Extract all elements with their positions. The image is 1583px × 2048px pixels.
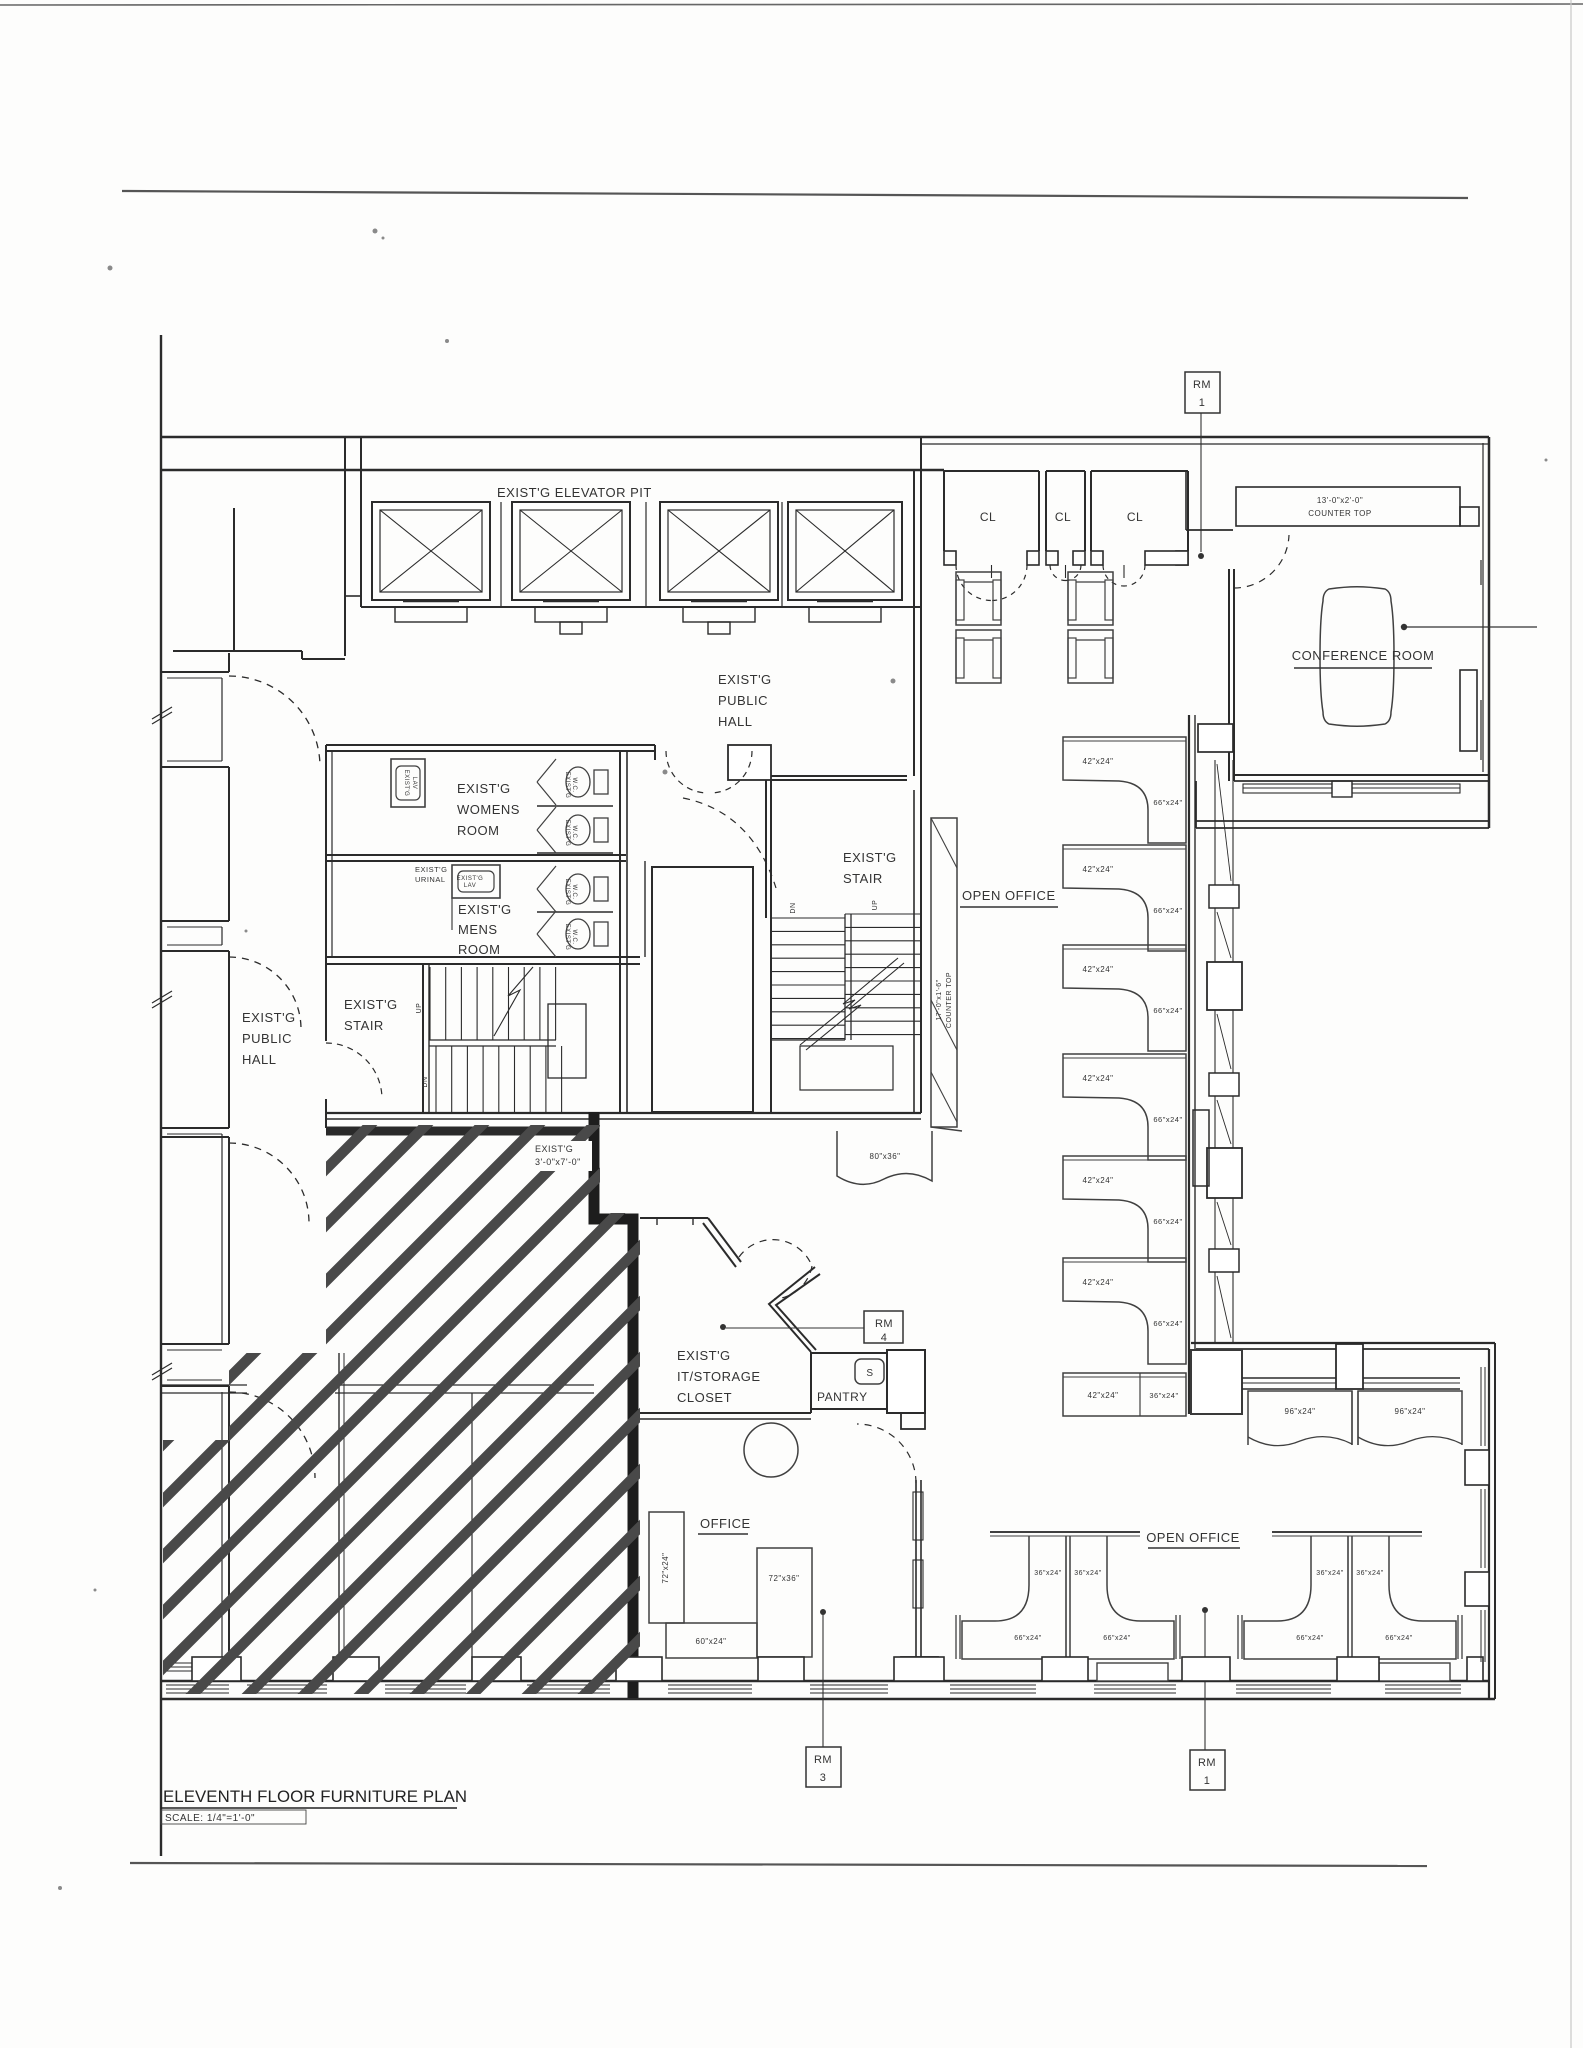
svg-text:UP: UP: [416, 1003, 423, 1014]
svg-text:RM: RM: [1193, 379, 1211, 391]
svg-text:CLOSET: CLOSET: [677, 1390, 732, 1405]
svg-text:HALL: HALL: [242, 1052, 277, 1067]
svg-text:COUNTER TOP: COUNTER TOP: [1308, 509, 1371, 518]
svg-text:42"x24": 42"x24": [1083, 1176, 1114, 1185]
svg-text:MENS: MENS: [458, 922, 498, 937]
svg-text:W.C.: W.C.: [571, 778, 577, 793]
svg-text:42"x24": 42"x24": [1083, 965, 1114, 974]
svg-text:66"x24": 66"x24": [1153, 798, 1182, 807]
svg-text:66"x24": 66"x24": [1153, 906, 1182, 915]
svg-text:W.C.: W.C.: [571, 826, 577, 841]
svg-text:ELEVENTH FLOOR FURNITURE PLAN: ELEVENTH FLOOR FURNITURE PLAN: [163, 1787, 467, 1806]
svg-text:66"x24": 66"x24": [1385, 1635, 1413, 1642]
svg-text:OFFICE: OFFICE: [700, 1516, 751, 1531]
svg-text:IT/STORAGE: IT/STORAGE: [677, 1369, 761, 1384]
svg-text:STAIR: STAIR: [843, 871, 883, 886]
svg-text:EXIST'G: EXIST'G: [677, 1348, 731, 1363]
svg-text:LAV: LAV: [411, 777, 417, 789]
svg-text:EXIST'G: EXIST'G: [457, 781, 511, 796]
svg-text:EXIST'G: EXIST'G: [415, 865, 447, 874]
svg-text:DN: DN: [790, 902, 797, 913]
svg-text:1: 1: [1199, 397, 1206, 409]
svg-text:EXIST'G: EXIST'G: [457, 876, 484, 882]
svg-text:RM: RM: [814, 1754, 832, 1766]
svg-text:WOMENS: WOMENS: [457, 802, 520, 817]
svg-text:66"x24": 66"x24": [1153, 1115, 1182, 1124]
svg-text:EXIST'G: EXIST'G: [535, 1144, 573, 1154]
svg-text:STAIR: STAIR: [344, 1018, 384, 1033]
svg-text:36"x24": 36"x24": [1316, 1570, 1344, 1577]
svg-text:CL: CL: [1055, 510, 1071, 524]
svg-text:CL: CL: [980, 510, 996, 524]
svg-text:URINAL: URINAL: [415, 875, 446, 884]
svg-text:PANTRY: PANTRY: [817, 1390, 868, 1404]
svg-text:1: 1: [1204, 1775, 1211, 1787]
svg-text:ROOM: ROOM: [457, 823, 499, 838]
svg-text:36"x24": 36"x24": [1074, 1570, 1102, 1577]
svg-text:EXIST'G: EXIST'G: [564, 879, 570, 906]
svg-text:OPEN OFFICE: OPEN OFFICE: [962, 888, 1056, 903]
svg-text:EXIST'G: EXIST'G: [718, 672, 772, 687]
svg-text:EXIST'G: EXIST'G: [843, 850, 897, 865]
svg-text:4: 4: [881, 1332, 888, 1344]
svg-text:96"x24": 96"x24": [1285, 1407, 1316, 1416]
svg-text:72"x24": 72"x24": [661, 1553, 670, 1584]
svg-text:3'-0"x7'-0": 3'-0"x7'-0": [535, 1157, 581, 1167]
svg-text:EXIST'G: EXIST'G: [242, 1010, 296, 1025]
svg-text:60"x24": 60"x24": [696, 1637, 727, 1646]
svg-text:42"x24": 42"x24": [1083, 1074, 1114, 1083]
svg-text:66"x24": 66"x24": [1103, 1635, 1131, 1642]
svg-text:EXIST'G: EXIST'G: [564, 820, 570, 847]
svg-text:17'-0"x1'-6": 17'-0"x1'-6": [936, 979, 943, 1020]
svg-text:42"x24": 42"x24": [1083, 865, 1114, 874]
svg-text:OPEN OFFICE: OPEN OFFICE: [1146, 1530, 1240, 1545]
svg-text:96"x24": 96"x24": [1395, 1407, 1426, 1416]
svg-text:66"x24": 66"x24": [1296, 1635, 1324, 1642]
svg-text:DN: DN: [422, 1076, 429, 1087]
svg-text:SCALE: 1/4"=1'-0": SCALE: 1/4"=1'-0": [165, 1813, 255, 1824]
svg-text:66"x24": 66"x24": [1014, 1635, 1042, 1642]
svg-text:S: S: [866, 1368, 873, 1379]
svg-text:42"x24": 42"x24": [1088, 1391, 1119, 1400]
svg-text:RM: RM: [1198, 1757, 1216, 1769]
svg-text:CL: CL: [1127, 510, 1143, 524]
svg-text:LAV: LAV: [464, 883, 476, 889]
svg-text:EXIST'G: EXIST'G: [344, 997, 398, 1012]
svg-text:72"x36": 72"x36": [769, 1574, 800, 1583]
svg-text:W.C.: W.C.: [571, 885, 577, 900]
svg-text:RM: RM: [875, 1318, 893, 1330]
svg-text:CONFERENCE ROOM: CONFERENCE ROOM: [1292, 648, 1435, 663]
svg-text:PUBLIC: PUBLIC: [242, 1031, 292, 1046]
svg-text:EXIST'G: EXIST'G: [564, 772, 570, 799]
svg-text:PUBLIC: PUBLIC: [718, 693, 768, 708]
svg-text:EXIST'G: EXIST'G: [564, 924, 570, 951]
svg-text:36"x24": 36"x24": [1034, 1570, 1062, 1577]
svg-text:13'-0"x2'-0": 13'-0"x2'-0": [1317, 496, 1363, 505]
svg-text:W.C.: W.C.: [571, 930, 577, 945]
svg-text:36"x24": 36"x24": [1356, 1570, 1384, 1577]
svg-text:66"x24": 66"x24": [1153, 1217, 1182, 1226]
svg-text:80"x36": 80"x36": [870, 1152, 901, 1161]
svg-text:COUNTER TOP: COUNTER TOP: [946, 972, 953, 1028]
svg-text:EXIST'G: EXIST'G: [458, 902, 512, 917]
svg-text:EXIST'G: EXIST'G: [403, 770, 409, 797]
svg-text:66"x24": 66"x24": [1153, 1319, 1182, 1328]
svg-text:36"x24": 36"x24": [1149, 1391, 1178, 1400]
svg-text:42"x24": 42"x24": [1083, 757, 1114, 766]
svg-text:3: 3: [820, 1772, 827, 1784]
svg-text:66"x24": 66"x24": [1153, 1006, 1182, 1015]
svg-text:42"x24": 42"x24": [1083, 1278, 1114, 1287]
svg-text:HALL: HALL: [718, 714, 753, 729]
svg-text:ROOM: ROOM: [458, 942, 500, 957]
svg-text:UP: UP: [872, 900, 879, 911]
svg-text:EXIST'G ELEVATOR PIT: EXIST'G ELEVATOR PIT: [497, 485, 652, 500]
